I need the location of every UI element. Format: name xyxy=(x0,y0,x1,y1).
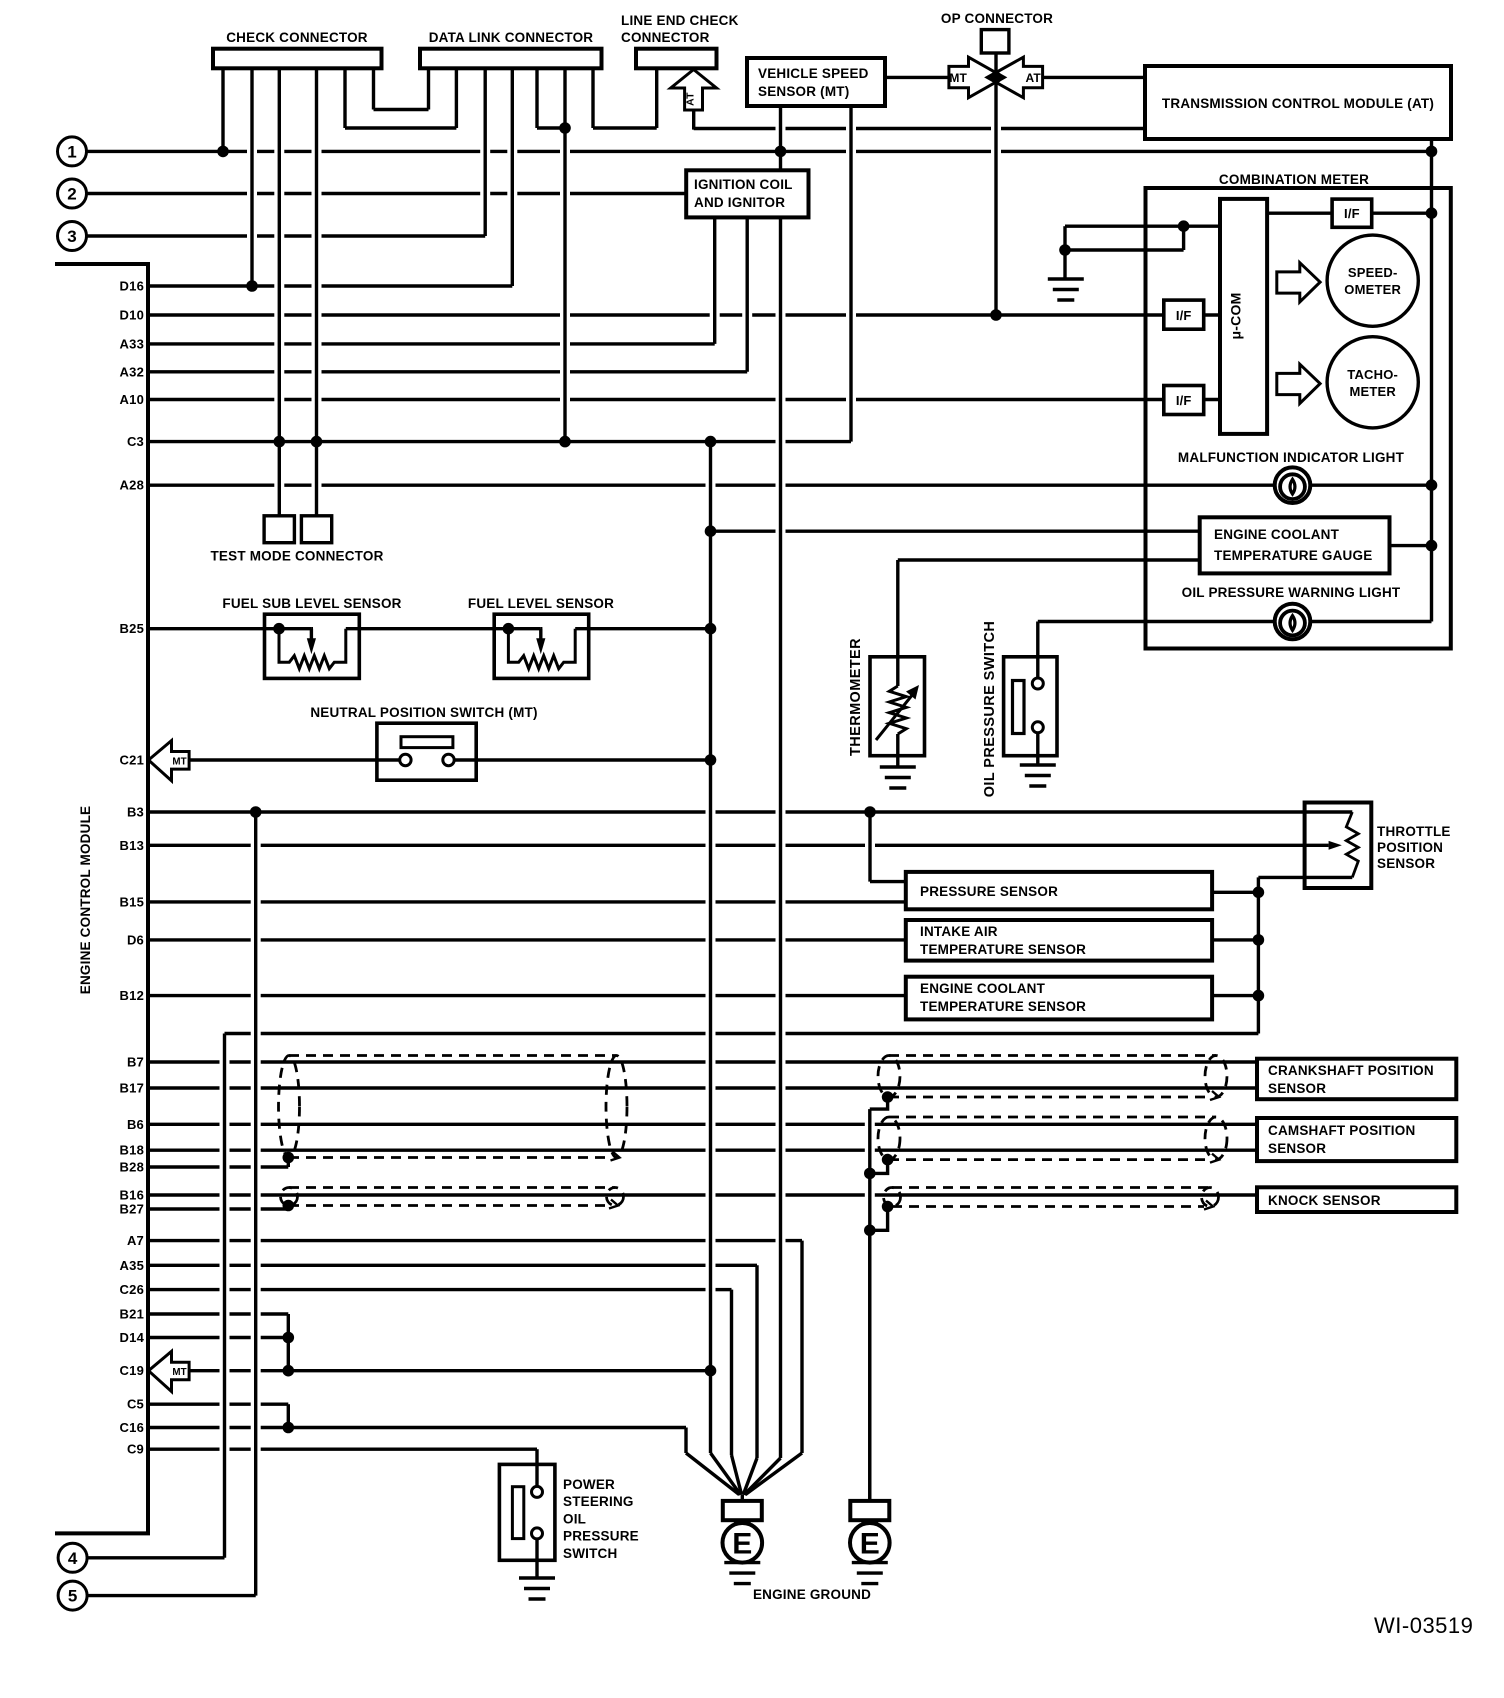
junction shield crank/ground xyxy=(882,1091,894,1103)
PS switch contact bar xyxy=(512,1487,523,1539)
I/F box top xyxy=(1332,199,1372,227)
wire D16 xyxy=(148,284,512,287)
wire vertical net C3-C19 xyxy=(709,442,712,1453)
svg-text:CRANKSHAFT POSITION: CRANKSHAFT POSITION xyxy=(1268,1063,1434,1078)
svg-text:OMETER: OMETER xyxy=(1344,282,1401,297)
node 2 xyxy=(58,179,87,208)
wire B3 riser from line 5 xyxy=(254,812,257,1596)
B13 arrowhead xyxy=(1329,841,1342,850)
junction common/pressure xyxy=(1253,887,1265,899)
intake air temperature sensor box xyxy=(906,920,1212,961)
neutral position switch contact left xyxy=(400,754,411,765)
svg-text:B27: B27 xyxy=(120,1202,144,1217)
svg-text:C21: C21 xyxy=(120,753,144,768)
wire pressure sensor right pin xyxy=(1212,891,1258,894)
junction C3/vertical xyxy=(705,436,717,448)
junction I/F top wire xyxy=(1426,207,1438,219)
wire line 4 xyxy=(87,1556,224,1559)
svg-text:1: 1 xyxy=(67,142,76,161)
fuel level sensor box xyxy=(494,614,589,678)
svg-text:B6: B6 xyxy=(127,1117,144,1132)
svg-text:B16: B16 xyxy=(120,1188,144,1203)
wire C5 riser down xyxy=(287,1404,290,1427)
camshaft position sensor box xyxy=(1257,1118,1456,1161)
wire check pin5 to data link pin2 xyxy=(345,126,456,129)
junction A28/right vertical xyxy=(1426,479,1438,491)
svg-text:CONNECTOR: CONNECTOR xyxy=(621,30,710,45)
data link pin 4 to line D16 xyxy=(511,68,514,286)
fuel sub level sensor resistor xyxy=(279,629,346,669)
vehicle speed sensor box xyxy=(747,58,885,106)
wire A10 xyxy=(148,398,1164,401)
wire B13 xyxy=(148,844,1329,847)
wire B28 step up to shield xyxy=(287,1158,290,1168)
oil pressure warning light lamp xyxy=(1275,604,1311,640)
ground (E2) xyxy=(852,1563,888,1584)
svg-text:PRESSURE: PRESSURE xyxy=(563,1529,639,1544)
tachometer circle xyxy=(1327,337,1418,428)
test mode connector box 2 xyxy=(301,516,331,543)
wire line 5 xyxy=(87,1594,256,1597)
svg-text:E: E xyxy=(732,1528,752,1561)
junction C3/data pin6 xyxy=(559,436,571,448)
svg-text:SENSOR (MT): SENSOR (MT) xyxy=(758,84,849,99)
check connector pin 4 to test mode connector xyxy=(315,68,318,516)
wire funnel diagonal xyxy=(743,1458,757,1495)
malfunction indicator light lamp xyxy=(1275,467,1311,503)
fuel level sensor resistor xyxy=(508,629,575,669)
ground (combination meter) xyxy=(1048,279,1084,300)
svg-text:B15: B15 xyxy=(120,894,144,909)
junction shield knock/ground xyxy=(882,1201,894,1213)
fuel sub level sensor box xyxy=(265,614,360,678)
svg-text:D14: D14 xyxy=(120,1330,145,1345)
fuel sub level sensor wiper arrow xyxy=(307,629,316,655)
junction gauge/right vertical xyxy=(1426,540,1438,552)
wire line 3 xyxy=(87,234,486,237)
ground (E1) xyxy=(724,1563,760,1584)
junction B3/row5 riser xyxy=(250,806,262,818)
svg-text:CHECK CONNECTOR: CHECK CONNECTOR xyxy=(226,30,368,45)
ignition coil pin A32 xyxy=(746,217,749,371)
wire D10 xyxy=(148,313,1164,316)
svg-text:B28: B28 xyxy=(120,1160,144,1175)
node 3 xyxy=(58,222,87,251)
wire line4 riser xyxy=(223,1034,226,1558)
svg-text:I/F: I/F xyxy=(1176,308,1192,323)
wire I/F top to right vertical xyxy=(1372,211,1432,214)
engine ground E2 xyxy=(850,1495,890,1563)
wire B21 xyxy=(148,1312,288,1315)
MT arrow xyxy=(949,57,1004,97)
wire TCM down right side xyxy=(1430,139,1433,622)
junction D10/OP connector xyxy=(990,309,1002,321)
TPS resistor xyxy=(1346,812,1358,877)
junction line1/VSS pin xyxy=(775,146,787,158)
throttle position sensor box xyxy=(1305,803,1372,889)
ignition coil and ignitor box xyxy=(686,170,808,217)
junction ground loop lower xyxy=(1059,244,1071,256)
wire 710 to gauge xyxy=(711,530,1200,533)
wire C26 down xyxy=(730,1290,733,1455)
junction fuel sub level sensor wiper xyxy=(273,623,285,635)
svg-text:STEERING: STEERING xyxy=(563,1494,634,1509)
svg-text:A28: A28 xyxy=(120,478,144,493)
wire funnel diagonal xyxy=(744,1458,780,1495)
wire ground loop left xyxy=(1063,226,1066,278)
svg-text:B17: B17 xyxy=(120,1081,144,1096)
wire A32 xyxy=(148,370,747,373)
svg-text:SWITCH: SWITCH xyxy=(563,1546,617,1561)
svg-text:TEMPERATURE SENSOR: TEMPERATURE SENSOR xyxy=(920,942,1086,957)
svg-text:OP CONNECTOR: OP CONNECTOR xyxy=(941,11,1053,26)
test mode connector box 1 xyxy=(264,516,294,543)
svg-text:B13: B13 xyxy=(120,838,144,853)
junction 710/C21 xyxy=(705,754,717,766)
wire AT arrow to TCM xyxy=(694,127,1145,130)
wire data pin7 to line end check pin xyxy=(593,126,657,129)
data link pin 3 to line 3 xyxy=(484,68,487,236)
wire B16 xyxy=(148,1193,1257,1196)
wire B25 segment 2 xyxy=(346,627,541,630)
wire I/F bottom to uCOM xyxy=(1204,398,1220,401)
wire B17 xyxy=(148,1086,1257,1089)
svg-text:C3: C3 xyxy=(127,434,144,449)
I/F box middle xyxy=(1164,300,1204,329)
data link pin 1 xyxy=(427,68,430,109)
shield (knock left) xyxy=(281,1188,624,1209)
wire funnel diagonal xyxy=(686,1453,739,1495)
engine control module bracket xyxy=(55,264,148,1533)
wire C9 down to PS switch xyxy=(535,1449,538,1487)
OP connector box xyxy=(981,30,1009,53)
wire B28 xyxy=(148,1165,288,1168)
wire VSS right pin xyxy=(849,106,852,442)
svg-text:E: E xyxy=(860,1528,880,1561)
svg-text:CAMSHAFT POSITION: CAMSHAFT POSITION xyxy=(1268,1123,1415,1138)
wire C3 xyxy=(148,440,851,443)
engine ground E1 xyxy=(723,1495,763,1563)
data link pin 2 xyxy=(455,68,458,128)
junction 710/B25 xyxy=(705,623,717,635)
junction common/ECT xyxy=(1253,990,1265,1002)
engine coolant temperature gauge box xyxy=(1200,517,1390,573)
svg-text:C19: C19 xyxy=(120,1363,144,1378)
svg-text:C5: C5 xyxy=(127,1397,144,1412)
svg-text:KNOCK SENSOR: KNOCK SENSOR xyxy=(1268,1193,1381,1208)
PS switch terminal bottom xyxy=(532,1528,543,1539)
thermometer stem bottom xyxy=(896,734,899,767)
svg-text:AT: AT xyxy=(685,92,697,106)
AT arrow (line end check) xyxy=(671,70,717,111)
junction 710/C19 xyxy=(705,1365,717,1377)
ground (power steering oil pressure switch) xyxy=(519,1578,555,1599)
wire ECT right pin xyxy=(1212,994,1258,997)
svg-text:IGNITION COIL: IGNITION COIL xyxy=(694,177,793,192)
ground (oil pressure switch) xyxy=(1020,765,1056,786)
fuel level sensor wiper arrow xyxy=(536,629,545,655)
svg-text:I/F: I/F xyxy=(1176,393,1192,408)
svg-text:A35: A35 xyxy=(120,1258,144,1273)
wire IAT right pin xyxy=(1212,938,1258,941)
wire B3 branch down xyxy=(868,812,871,882)
wire oil pressure switch down xyxy=(1036,733,1039,765)
wire A28 left of lamp xyxy=(148,484,1275,487)
check connector pin 5 xyxy=(343,68,346,128)
svg-text:METER: METER xyxy=(1349,384,1396,399)
svg-text:B25: B25 xyxy=(120,621,144,636)
wire AT arrow stem xyxy=(692,110,695,130)
svg-text:3: 3 xyxy=(67,227,76,246)
svg-text:OIL PRESSURE WARNING LIGHT: OIL PRESSURE WARNING LIGHT xyxy=(1182,585,1401,600)
wire AT arrow to TCM box xyxy=(1043,76,1145,79)
wire OPS to warning light xyxy=(1038,620,1275,623)
wire VSS to MT arrow xyxy=(885,76,949,79)
junction fuel level sensor wiper xyxy=(503,623,515,635)
wire C21 right xyxy=(454,758,710,761)
thermometer stem top xyxy=(896,657,899,686)
oil pressure switch box xyxy=(1004,657,1057,756)
neutral position switch box xyxy=(377,723,476,780)
wire thermometer to gauge xyxy=(898,558,1200,561)
shield (knock right) xyxy=(884,1188,1219,1210)
junction C16/riser xyxy=(283,1422,295,1434)
svg-text:LINE END CHECK: LINE END CHECK xyxy=(621,13,739,28)
wire gauge to right vertical xyxy=(1390,544,1432,547)
wire E2 stem xyxy=(868,1230,871,1494)
neutral position switch bar xyxy=(401,737,453,748)
wire B18 xyxy=(148,1148,1257,1151)
svg-text:SENSOR: SENSOR xyxy=(1377,856,1435,871)
svg-text:D6: D6 xyxy=(127,932,144,947)
svg-text:5: 5 xyxy=(68,1587,77,1606)
wire ground loop bottom xyxy=(1065,248,1184,251)
svg-text:2: 2 xyxy=(67,185,76,204)
wire B7 xyxy=(148,1060,1257,1063)
transmission control module box xyxy=(1145,66,1451,139)
wire A35 down xyxy=(755,1265,758,1458)
data link pin 6 to line C3 xyxy=(563,68,566,441)
svg-text:B7: B7 xyxy=(127,1055,144,1070)
shield (crankshaft right) xyxy=(878,1056,1227,1101)
wire B21 riser down xyxy=(287,1314,290,1371)
wire funnel diagonal xyxy=(745,1453,802,1495)
svg-text:B12: B12 xyxy=(120,988,144,1003)
engine coolant temperature sensor box xyxy=(906,977,1212,1020)
svg-text:B3: B3 xyxy=(127,805,144,820)
node 1 xyxy=(58,137,87,166)
check connector pin 1 xyxy=(221,68,224,151)
svg-text:SPEED-: SPEED- xyxy=(1348,265,1398,280)
svg-text:C26: C26 xyxy=(120,1282,144,1297)
wire crank shield to ground xyxy=(870,1097,888,1109)
AT arrow xyxy=(987,57,1042,97)
svg-text:A7: A7 xyxy=(127,1233,144,1248)
svg-text:ENGINE COOLANT: ENGINE COOLANT xyxy=(920,981,1046,996)
oil pressure switch terminal top xyxy=(1032,678,1043,689)
arrow to speedometer xyxy=(1277,263,1320,302)
junction OP connector / MT-AT xyxy=(990,72,1002,84)
ground (thermometer) xyxy=(880,767,916,788)
junction C3/test pin2 xyxy=(311,436,323,448)
wire common top to TPS xyxy=(1258,876,1352,879)
PS switch terminal top xyxy=(532,1486,543,1497)
svg-text:MT: MT xyxy=(172,757,186,768)
svg-text:POWER: POWER xyxy=(563,1477,615,1492)
junction shield ground 1 xyxy=(864,1168,876,1180)
wire OP connector down to D10 xyxy=(994,53,997,315)
shield (crank/cam left) xyxy=(279,1056,628,1161)
junction shield ground 2 xyxy=(864,1225,876,1237)
MT arrow C19 xyxy=(149,1351,190,1391)
wire C5 xyxy=(148,1402,288,1405)
svg-text:TEMPERATURE SENSOR: TEMPERATURE SENSOR xyxy=(920,999,1086,1014)
wire uCOM to I/F top xyxy=(1267,211,1332,214)
arrow to tachometer xyxy=(1277,364,1320,403)
svg-text:NEUTRAL POSITION SWITCH (MT): NEUTRAL POSITION SWITCH (MT) xyxy=(310,705,537,720)
wire C19 xyxy=(189,1369,710,1372)
wire C16 down xyxy=(684,1428,687,1454)
svg-text:SENSOR: SENSOR xyxy=(1268,1141,1326,1156)
svg-text:MT: MT xyxy=(172,1367,186,1378)
line end check connector box xyxy=(636,49,717,69)
thermometer box xyxy=(870,657,925,756)
svg-text:MT: MT xyxy=(949,71,967,85)
svg-text:ENGINE GROUND: ENGINE GROUND xyxy=(753,1587,871,1602)
check connector pin 6 xyxy=(372,68,375,109)
check connector pin 3 to test mode connector xyxy=(278,68,281,516)
junction line1/check pin1 xyxy=(217,146,229,158)
wire B27 step up to shield xyxy=(287,1206,290,1210)
junction shield1/B28 xyxy=(283,1152,295,1164)
svg-text:TRANSMISSION CONTROL MODULE (A: TRANSMISSION CONTROL MODULE (AT) xyxy=(1162,96,1434,111)
wire B12 xyxy=(148,994,906,997)
wire D14 xyxy=(148,1336,288,1339)
junction shield cam/ground xyxy=(882,1154,894,1166)
svg-text:FUEL SUB LEVEL SENSOR: FUEL SUB LEVEL SENSOR xyxy=(222,596,401,611)
wire A7 down xyxy=(800,1241,803,1453)
wire funnel diagonal xyxy=(732,1455,742,1495)
svg-text:VEHICLE SPEED: VEHICLE SPEED xyxy=(758,66,869,81)
wire B25 segment 3 xyxy=(575,627,710,630)
node 4 xyxy=(58,1543,87,1572)
u-COM box xyxy=(1220,199,1267,434)
junction line1/TCM vertical xyxy=(1426,146,1438,158)
svg-text:D10: D10 xyxy=(120,308,144,323)
wire shield ground vertical xyxy=(868,1109,871,1501)
junction shield2/B27 xyxy=(283,1200,295,1212)
wire A33 xyxy=(148,342,715,345)
speedometer circle xyxy=(1327,235,1418,326)
svg-text:B21: B21 xyxy=(120,1307,144,1322)
svg-text:A32: A32 xyxy=(120,364,144,379)
wire I/F middle to uCOM xyxy=(1204,313,1220,316)
svg-text:FUEL LEVEL SENSOR: FUEL LEVEL SENSOR xyxy=(468,596,614,611)
svg-text:μ-COM: μ-COM xyxy=(1228,293,1244,340)
junction D14/riser xyxy=(283,1332,295,1344)
svg-text:B18: B18 xyxy=(120,1143,144,1158)
crankshaft position sensor box xyxy=(1257,1059,1456,1100)
svg-text:DATA LINK CONNECTOR: DATA LINK CONNECTOR xyxy=(429,30,594,45)
svg-text:THROTTLE: THROTTLE xyxy=(1377,824,1451,839)
svg-text:A10: A10 xyxy=(120,392,144,407)
ignition coil pin A33 xyxy=(713,217,716,344)
oil pressure switch contact bar xyxy=(1013,681,1025,734)
wire data pin5 to data pin6 xyxy=(537,126,565,129)
check connector pin 2 xyxy=(250,68,253,286)
wire thermometer riser xyxy=(896,560,899,657)
power steering oil pressure switch box xyxy=(499,1464,555,1560)
svg-text:TEMPERATURE GAUGE: TEMPERATURE GAUGE xyxy=(1214,548,1372,563)
line end check connector pin xyxy=(655,68,658,128)
junction 710/ECTG wire xyxy=(705,525,717,537)
svg-text:WI-03519: WI-03519 xyxy=(1374,1613,1473,1638)
svg-text:PRESSURE SENSOR: PRESSURE SENSOR xyxy=(920,884,1058,899)
wire B3 xyxy=(148,810,1352,813)
pressure sensor box xyxy=(906,872,1212,909)
wire C9 xyxy=(148,1447,537,1450)
wire C16 xyxy=(148,1426,686,1429)
wire knock shield to ground xyxy=(870,1207,888,1231)
svg-text:OIL PRESSURE SWITCH: OIL PRESSURE SWITCH xyxy=(982,621,998,798)
svg-text:ENGINE CONTROL MODULE: ENGINE CONTROL MODULE xyxy=(78,806,93,994)
svg-text:OIL: OIL xyxy=(563,1511,586,1526)
wire A35 xyxy=(148,1264,757,1267)
ignition coil ground pin xyxy=(779,217,782,1458)
junction C19/riser xyxy=(283,1365,295,1377)
wire C21 left xyxy=(189,758,400,761)
wire warning light to right vertical xyxy=(1309,620,1432,623)
svg-text:INTAKE AIR: INTAKE AIR xyxy=(920,924,998,939)
check connector box xyxy=(213,49,382,69)
junction ground loop upper xyxy=(1178,220,1190,232)
svg-text:POSITION: POSITION xyxy=(1377,840,1443,855)
wire uCOM ground upper xyxy=(1065,224,1220,227)
wire check pin6 to data link pin1 xyxy=(374,108,429,111)
data link connector box xyxy=(420,49,602,69)
MT arrow C21 xyxy=(149,741,190,781)
wire PS switch to ground xyxy=(535,1539,538,1578)
wire ground loop right xyxy=(1182,226,1185,250)
junction data pin5/pin6 xyxy=(559,122,571,134)
wire common row to line 4 riser xyxy=(225,1032,1259,1035)
wire A7 xyxy=(148,1239,802,1242)
svg-text:4: 4 xyxy=(68,1549,78,1568)
svg-text:I/F: I/F xyxy=(1344,206,1360,221)
wire B25 segment 1 xyxy=(148,627,311,630)
junction C3/test pin1 xyxy=(274,436,286,448)
wire C26 xyxy=(148,1288,732,1291)
I/F box bottom xyxy=(1164,386,1204,415)
wire line 1 xyxy=(87,150,1432,153)
svg-text:MALFUNCTION INDICATOR LIGHT: MALFUNCTION INDICATOR LIGHT xyxy=(1178,450,1405,465)
wire B6 xyxy=(148,1123,1257,1126)
wire VSS left pin xyxy=(779,106,782,170)
combination meter box xyxy=(1146,188,1451,649)
data link pin 7 xyxy=(591,68,594,128)
wire D6 xyxy=(148,938,906,941)
svg-text:TACHO-: TACHO- xyxy=(1347,367,1398,382)
svg-text:AT: AT xyxy=(1025,71,1041,85)
svg-text:A33: A33 xyxy=(120,336,144,351)
shield (camshaft right) xyxy=(878,1117,1227,1163)
svg-text:C16: C16 xyxy=(120,1420,144,1435)
wire branch to pressure sensor xyxy=(870,880,906,883)
thermometer resistor xyxy=(889,686,906,734)
wire B27 xyxy=(148,1207,288,1210)
junction B3/pressure sensor branch xyxy=(864,806,876,818)
junction D16/check pin2 xyxy=(246,280,258,292)
